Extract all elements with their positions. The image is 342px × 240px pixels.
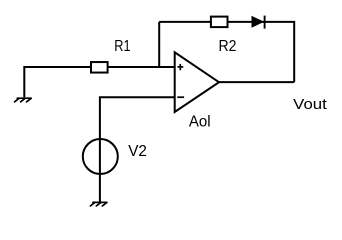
svg-text:V2: V2 (128, 143, 147, 160)
svg-text:Aol: Aol (189, 113, 211, 130)
resistor R1 (91, 62, 108, 73)
op-amp U1 (175, 52, 219, 112)
svg-text:R2: R2 (219, 38, 237, 55)
wire V2 through and to ground (99, 139, 101, 202)
voltage source V2 (83, 139, 118, 174)
wire top feedback run (159, 22, 294, 82)
ground (below V2) (90, 202, 107, 206)
resistor R2 (211, 17, 228, 28)
wire ground to R1 and + input (24, 67, 174, 97)
svg-text:R1: R1 (114, 38, 130, 55)
wire feedback tap node to top (158, 22, 160, 67)
pin + (non-inverting input) (177, 64, 183, 70)
pin - (inverting input) (177, 96, 184, 98)
wire inverting input to V2 (100, 97, 175, 139)
diode D1 (252, 16, 265, 29)
ground (left) (15, 98, 32, 102)
svg-text:Vout: Vout (293, 97, 327, 113)
wire op-amp output (219, 81, 294, 83)
